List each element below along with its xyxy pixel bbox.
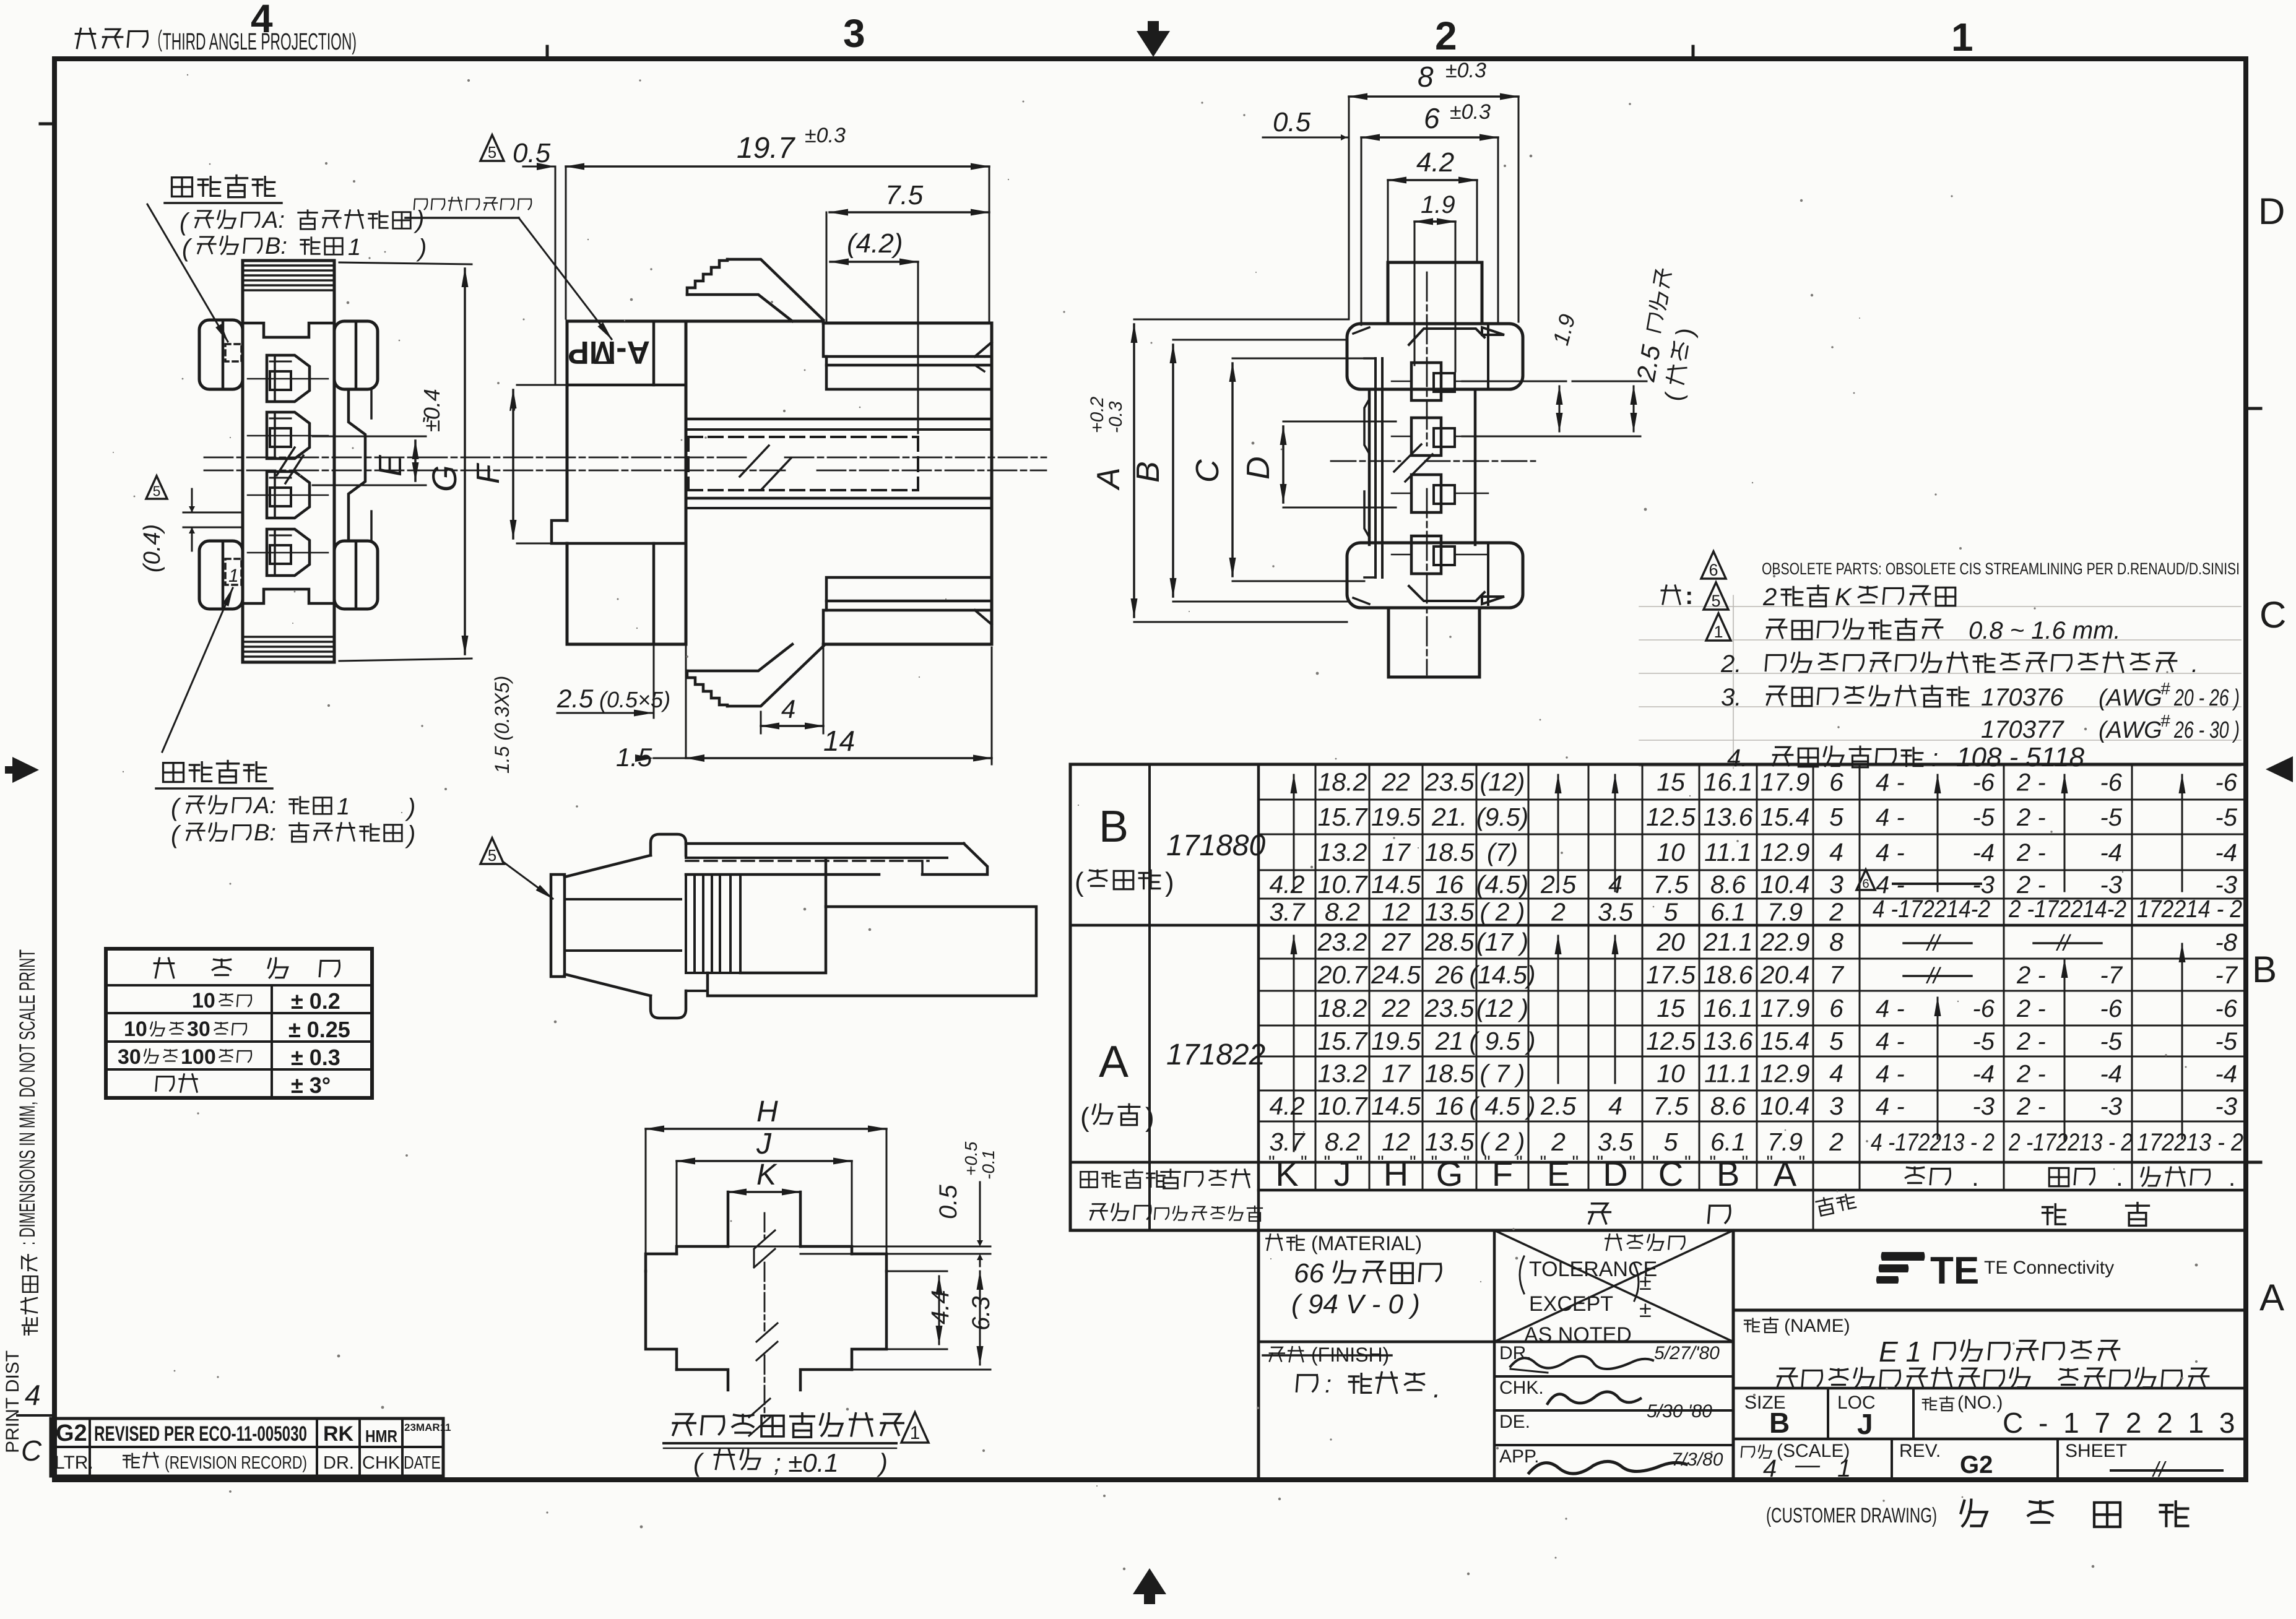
svg-text:1: 1 <box>348 235 361 261</box>
svg-text:(0.5×5): (0.5×5) <box>599 687 670 712</box>
svg-text:1: 1 <box>228 566 239 586</box>
cutout outline <box>728 1192 800 1246</box>
svg-text:6: 6 <box>1709 561 1718 579</box>
cable rails <box>686 842 964 845</box>
svg-text:( 2 ): ( 2 ) <box>1480 898 1525 926</box>
right view vertical centerline <box>1426 272 1428 446</box>
note triangle 1 <box>1706 613 1731 641</box>
right view top stem <box>1388 262 1482 324</box>
svg-text:REVISED PER ECO-11-005030: REVISED PER ECO-11-005030 <box>94 1422 307 1446</box>
svg-text:3: 3 <box>843 11 865 56</box>
svg-text:2 -: 2 - <box>2016 839 2046 866</box>
svg-text:4 -: 4 - <box>1876 839 1905 866</box>
cap right box <box>708 907 1036 996</box>
svg-text:; ±0.1: ; ±0.1 <box>774 1448 839 1477</box>
svg-text:D: D <box>1241 456 1276 480</box>
title block outline <box>1257 1230 1260 1480</box>
svg-text:2 -172214-2: 2 -172214-2 <box>2008 896 2126 923</box>
svg-text:2 -: 2 - <box>2016 871 2046 899</box>
flange inner lips <box>1409 329 1484 345</box>
DR signature <box>1510 1356 1653 1369</box>
svg-text:8: 8 <box>1418 61 1434 93</box>
svg-text:-3: -3 <box>2215 871 2237 899</box>
svg-text:-5: -5 <box>1972 1028 1995 1055</box>
svg-text:10.4: 10.4 <box>1761 1092 1810 1120</box>
svg-text:(9.5): (9.5) <box>1476 803 1528 831</box>
svg-text:DE.: DE. <box>1499 1412 1530 1432</box>
svg-text:(AWG: (AWG <box>2099 685 2162 711</box>
svg-text:": " <box>508 402 516 426</box>
svg-text:-6: -6 <box>1972 769 1995 797</box>
svg-text:± 0.25: ± 0.25 <box>288 1017 350 1042</box>
svg-text:(: ( <box>1075 867 1084 897</box>
svg-text:4 -: 4 - <box>1876 1061 1905 1088</box>
centerline break zigzag <box>740 446 769 477</box>
circuit number callout upper <box>172 178 193 197</box>
svg-text:7.5: 7.5 <box>1653 870 1689 899</box>
svg-text:10.7: 10.7 <box>1318 1092 1369 1120</box>
svg-text:-4: -4 <box>1972 1061 1995 1088</box>
svg-text:6: 6 <box>1829 994 1843 1022</box>
svg-text:26 - 30 ): 26 - 30 ) <box>2173 717 2240 743</box>
svg-text:2: 2 <box>1762 584 1777 611</box>
svg-text:": " <box>1540 1152 1547 1173</box>
svg-text:A:: A: <box>253 793 276 819</box>
svg-text:-4: -4 <box>2100 1061 2122 1088</box>
svg-text:5/27/'80: 5/27/'80 <box>1654 1343 1720 1363</box>
svg-text:.: . <box>1972 1162 1979 1191</box>
svg-text:(: ( <box>1080 1102 1090 1133</box>
svg-text:10: 10 <box>192 989 215 1012</box>
svg-text:4: 4 <box>25 1379 41 1411</box>
dim H <box>646 1128 886 1130</box>
svg-text:2: 2 <box>1551 1128 1566 1156</box>
cap mid block <box>740 860 826 973</box>
svg-text:2 -: 2 - <box>2016 769 2046 797</box>
svg-text:B: B <box>2252 949 2277 990</box>
svg-text:19.5: 19.5 <box>1371 1027 1421 1055</box>
svg-text:": " <box>1410 1152 1416 1173</box>
svg-text:1: 1 <box>1951 15 1973 59</box>
svg-text:HMR: HMR <box>365 1427 397 1446</box>
svg-text:17.9: 17.9 <box>1761 994 1810 1022</box>
svg-text:(12 ): (12 ) <box>1476 994 1528 1022</box>
svg-text:21.: 21. <box>1431 803 1467 831</box>
svg-text:4 -172214-2: 4 -172214-2 <box>1873 896 1990 923</box>
DE signature <box>1548 1392 1640 1404</box>
svg-text:4: 4 <box>1608 1092 1622 1120</box>
svg-text:5: 5 <box>488 847 496 865</box>
svg-text:2.5: 2.5 <box>1540 1092 1576 1120</box>
svg-text:AS NOTED: AS NOTED <box>1524 1323 1632 1347</box>
svg-text:12.5: 12.5 <box>1646 1027 1696 1055</box>
svg-text:-5: -5 <box>2100 804 2122 831</box>
svg-text:3.7: 3.7 <box>1270 1128 1306 1156</box>
svg-text:24.5: 24.5 <box>1371 961 1421 989</box>
svg-text:-5: -5 <box>2215 804 2237 831</box>
svg-text:16.1: 16.1 <box>1704 994 1753 1022</box>
svg-text:4.2: 4.2 <box>1270 1092 1305 1120</box>
svg-text:5: 5 <box>153 483 161 499</box>
svg-text:0.5: 0.5 <box>513 138 551 168</box>
svg-text:3: 3 <box>1829 1092 1843 1120</box>
svg-text:23.5: 23.5 <box>1424 994 1475 1022</box>
svg-text:1: 1 <box>910 1423 921 1443</box>
dim 1.9 pitch right <box>1462 381 1566 382</box>
dim 4.4 <box>938 1276 940 1344</box>
right view top flange <box>1347 324 1523 389</box>
socket bottom rail <box>823 610 989 644</box>
svg-text:H: H <box>1384 1154 1408 1193</box>
cavity wall lines <box>687 418 992 421</box>
svg-text:-6: -6 <box>1972 995 1995 1022</box>
svg-text:1.5 (0.3X5): 1.5 (0.3X5) <box>491 676 513 774</box>
svg-text:DR.: DR. <box>323 1453 354 1473</box>
svg-text:17: 17 <box>1382 838 1411 866</box>
svg-text:RK: RK <box>323 1422 354 1446</box>
svg-text:H: H <box>756 1095 778 1128</box>
dim J <box>677 1160 852 1162</box>
svg-text:K: K <box>1275 1154 1298 1193</box>
right view horizontal break <box>1331 460 1400 462</box>
dim (4.2) <box>830 261 918 263</box>
svg-text://: // <box>1925 930 1942 956</box>
dim B <box>1173 339 1347 341</box>
svg-text:-6: -6 <box>2100 769 2122 797</box>
note ruled lines (faint) <box>1639 606 2241 607</box>
left margin note <box>15 949 40 1335</box>
svg-text:-3: -3 <box>2215 1093 2237 1120</box>
circuit number pad bottom (dashed) <box>225 559 241 585</box>
svg-text:(0.4): (0.4) <box>139 524 165 572</box>
dim 4 (latch) <box>760 712 762 733</box>
svg-text::: : <box>1931 745 1938 772</box>
svg-text:DATE: DATE <box>404 1453 441 1473</box>
svg-text:7.9: 7.9 <box>1767 1128 1803 1156</box>
right view contact 2 <box>1411 418 1441 455</box>
dim 4.2 right view <box>1388 179 1477 181</box>
svg-text://: // <box>2055 930 2072 956</box>
svg-text:(14.5): (14.5) <box>1469 961 1535 989</box>
tolerance cell with X <box>1494 1230 1733 1342</box>
svg-text:B: B <box>1099 802 1129 852</box>
svg-text:B: B <box>1717 1154 1739 1193</box>
svg-text:E: E <box>373 454 409 477</box>
svg-text:10.7: 10.7 <box>1318 870 1369 899</box>
svg-text:2 -: 2 - <box>2016 962 2046 989</box>
svg-text:D: D <box>1603 1154 1627 1193</box>
right view body sides <box>1368 389 1371 545</box>
svg-text:G: G <box>1436 1154 1463 1193</box>
right view contact 4 <box>1411 536 1441 574</box>
socket top rail <box>823 323 989 356</box>
svg-text:6.1: 6.1 <box>1710 898 1746 926</box>
svg-text:#: # <box>2160 679 2170 698</box>
svg-text:4 -: 4 - <box>1876 1093 1905 1120</box>
svg-text:": " <box>1684 1152 1691 1173</box>
svg-text:3.5: 3.5 <box>1598 898 1633 926</box>
TE logo cell <box>1733 1309 2246 1312</box>
svg-text:4 -: 4 - <box>1876 769 1905 797</box>
svg-text:15: 15 <box>1657 768 1685 797</box>
svg-text:C - 1 7 2 2 1 3: C - 1 7 2 2 1 3 <box>2003 1407 2239 1439</box>
svg-text:( 2 ): ( 2 ) <box>1480 1128 1525 1156</box>
svg-text:C: C <box>21 1435 42 1467</box>
svg-text:20 - 26 ): 20 - 26 ) <box>2173 685 2240 711</box>
svg-text:13.6: 13.6 <box>1704 803 1753 831</box>
svg-text:: DIMENSIONS IN MM, DO NOT SCA: : DIMENSIONS IN MM, DO NOT SCALE PRINT <box>15 949 40 1245</box>
svg-text:-3: -3 <box>2100 871 2122 899</box>
horizontal centerline front view <box>204 457 418 459</box>
svg-text:19.5: 19.5 <box>1371 803 1421 831</box>
svg-text://: // <box>2152 1458 2167 1482</box>
svg-text:(NO.): (NO.) <box>1957 1392 2003 1413</box>
dim A <box>1134 319 1347 321</box>
zone ticks <box>546 46 549 59</box>
centering arrow right <box>2266 756 2293 782</box>
mounting ear bottom-right <box>334 541 378 609</box>
svg-text:13.6: 13.6 <box>1704 1027 1753 1055</box>
svg-text:-3: -3 <box>2100 1093 2122 1120</box>
svg-text:E: E <box>1547 1154 1570 1193</box>
svg-text:23.2: 23.2 <box>1317 928 1367 956</box>
svg-text:22: 22 <box>1381 994 1410 1022</box>
dim D <box>1283 421 1396 423</box>
svg-text:172213 - 2: 172213 - 2 <box>2137 1129 2243 1156</box>
svg-text:18.5: 18.5 <box>1425 1060 1475 1088</box>
right view contact 1 <box>1411 363 1441 400</box>
svg-text:A: A <box>1091 467 1127 491</box>
svg-text:SHEET: SHEET <box>2065 1441 2127 1461</box>
svg-text:13.2: 13.2 <box>1318 838 1367 866</box>
svg-text:1: 1 <box>1837 1455 1851 1482</box>
big table grid <box>1070 763 2246 766</box>
svg-text:5: 5 <box>1664 898 1678 926</box>
svg-text:172214 - 2: 172214 - 2 <box>2137 896 2242 923</box>
svg-text:15.7: 15.7 <box>1318 803 1369 831</box>
left small step <box>552 520 567 543</box>
svg-text:2 -: 2 - <box>2016 1061 2046 1088</box>
svg-text:5: 5 <box>1664 1128 1678 1156</box>
svg-text:B: B <box>1769 1407 1790 1439</box>
APP signature <box>1529 1461 1686 1474</box>
svg-text:5: 5 <box>488 144 496 162</box>
centerline break marks <box>277 447 295 475</box>
svg-text:C: C <box>1658 1154 1683 1193</box>
svg-text:(4.2): (4.2) <box>847 228 903 259</box>
TE logo <box>1876 1252 1925 1284</box>
mounting ear top-left <box>199 320 243 389</box>
svg-text:0.5: 0.5 <box>935 1185 962 1219</box>
svg-text://: // <box>1925 963 1942 988</box>
svg-text:12: 12 <box>1382 898 1410 926</box>
svg-text:23MAR11: 23MAR11 <box>404 1422 451 1433</box>
svg-text:26: 26 <box>1435 961 1464 989</box>
svg-text:F: F <box>1492 1154 1513 1193</box>
comb grip <box>685 874 687 973</box>
svg-text:A: A <box>2259 1277 2284 1318</box>
svg-text:23.5: 23.5 <box>1424 768 1475 797</box>
column arrows A section <box>1293 936 1295 1151</box>
svg-text:108 - 5118: 108 - 5118 <box>1956 742 2085 772</box>
svg-text:8.2: 8.2 <box>1325 1128 1360 1156</box>
svg-text:10: 10 <box>124 1017 147 1041</box>
svg-text:14: 14 <box>823 725 855 757</box>
svg-text:7.5: 7.5 <box>885 180 924 210</box>
svg-text:3.7: 3.7 <box>1270 898 1306 926</box>
svg-text:0.8 ~ 1.6 mm.: 0.8 ~ 1.6 mm. <box>1969 617 2121 644</box>
svg-text:1.9: 1.9 <box>1421 191 1455 218</box>
svg-text:66: 66 <box>1294 1258 1324 1289</box>
centering arrow bottom <box>1133 1568 1166 1604</box>
svg-text:-6: -6 <box>2215 769 2237 797</box>
svg-text:8: 8 <box>1829 928 1843 956</box>
svg-text:100: 100 <box>181 1045 216 1069</box>
svg-text:-5: -5 <box>2100 1028 2122 1055</box>
dim 14 bottom <box>686 757 992 759</box>
svg-text:-4: -4 <box>2215 839 2237 866</box>
svg-text:2 -: 2 - <box>2016 1028 2046 1055</box>
dim K <box>728 1191 800 1193</box>
dim 1.5 bottom <box>654 758 686 759</box>
lower latch stair <box>687 671 727 706</box>
svg-text:± 0.2: ± 0.2 <box>291 988 340 1014</box>
svg-text:16: 16 <box>1436 870 1464 899</box>
svg-text:-3: -3 <box>1972 1093 1995 1120</box>
third angle projection label <box>76 28 95 48</box>
svg-text:2: 2 <box>1829 1128 1843 1156</box>
svg-text:8.2: 8.2 <box>1325 898 1360 926</box>
svg-text:15.4: 15.4 <box>1761 803 1810 831</box>
svg-text:12: 12 <box>1382 1128 1410 1156</box>
svg-text:17: 17 <box>1382 1060 1411 1088</box>
svg-text:(REVISION RECORD): (REVISION RECORD) <box>165 1453 307 1473</box>
svg-text:-5: -5 <box>2215 1028 2237 1055</box>
svg-text:2 -: 2 - <box>2016 804 2046 831</box>
svg-text:TE: TE <box>1930 1250 1979 1292</box>
cap flange <box>551 874 565 977</box>
svg-text:OBSOLETE PARTS: OBSOLETE CI: OBSOLETE PARTS: OBSOLETE CIS STREAMLININ… <box>1762 559 2240 578</box>
svg-text:C: C <box>2259 594 2286 636</box>
front view head notch bottom <box>243 589 334 603</box>
svg-text:17.9: 17.9 <box>1761 768 1810 797</box>
svg-text:21.1: 21.1 <box>1703 928 1753 956</box>
dim 8 +-0.3 <box>1349 95 1518 98</box>
right view bottom stem <box>1388 608 1479 677</box>
svg-text:20.4: 20.4 <box>1760 961 1810 989</box>
svg-text:A-MP: A-MP <box>568 334 650 370</box>
general tolerance table <box>106 949 372 1098</box>
svg-text:11.1: 11.1 <box>1704 1060 1752 1088</box>
size/loc/no row <box>1827 1388 1829 1439</box>
cap bottom bump <box>651 991 686 1018</box>
centering arrow left <box>5 757 39 783</box>
svg-text:6.3: 6.3 <box>968 1296 995 1331</box>
cap top bump <box>651 834 686 855</box>
svg-text:(7): (7) <box>1487 838 1518 866</box>
contact cavity 1 <box>267 355 310 402</box>
svg-text:171822: 171822 <box>1166 1038 1265 1071</box>
svg-text:4 -: 4 - <box>1876 995 1905 1022</box>
svg-text:4 -: 4 - <box>1876 804 1905 831</box>
finish cell <box>1270 1347 1284 1361</box>
svg-text:A: A <box>1774 1154 1797 1193</box>
centering arrow top <box>1137 21 1170 57</box>
svg-text:5: 5 <box>1711 592 1720 610</box>
mounting ear top-right <box>334 321 378 389</box>
svg-text:±: ± <box>1639 1269 1652 1295</box>
svg-text:15.4: 15.4 <box>1761 1027 1810 1055</box>
AMP mirrored logo <box>568 334 650 370</box>
svg-text:10: 10 <box>1657 838 1685 866</box>
note: label <box>1661 585 1680 604</box>
svg-text:(CUSTOMER DRAWING): (CUSTOMER DRAWING) <box>1766 1504 1937 1527</box>
svg-text:15: 15 <box>1657 994 1685 1022</box>
scale/rev/sheet row <box>1891 1439 1893 1480</box>
svg-text:K: K <box>1835 584 1853 611</box>
extension lines 0.5/19.7 <box>555 166 557 384</box>
svg-text:#: # <box>2160 711 2170 730</box>
dim 7.5 <box>830 211 989 214</box>
svg-text:1: 1 <box>1713 623 1723 641</box>
svg-text:11.1: 11.1 <box>1704 838 1752 866</box>
side view body <box>567 320 823 323</box>
footer labels <box>1081 1172 1098 1187</box>
leader to bottom pad <box>162 588 233 752</box>
svg-text:G: G <box>425 465 464 492</box>
svg-text:3.5: 3.5 <box>1598 1128 1633 1156</box>
svg-text:1.5: 1.5 <box>616 743 652 772</box>
svg-text:-7: -7 <box>2100 962 2123 989</box>
svg-text:22: 22 <box>1381 768 1410 797</box>
svg-text:10.4: 10.4 <box>1761 870 1810 899</box>
svg-text:): ) <box>1145 1102 1154 1133</box>
dimension F <box>517 384 565 386</box>
svg-text:±: ± <box>1639 1297 1652 1322</box>
svg-text:±0.4: ±0.4 <box>419 389 444 432</box>
svg-text:6: 6 <box>1862 877 1869 891</box>
scan speckles <box>771 301 773 303</box>
svg-text:J: J <box>756 1128 772 1160</box>
svg-text:8.6: 8.6 <box>1710 1092 1746 1120</box>
svg-text:2 -172213 - 2: 2 -172213 - 2 <box>2008 1129 2133 1156</box>
(0.4) offset lines <box>183 512 243 514</box>
panel surface lines <box>728 1246 990 1248</box>
svg-text:30: 30 <box>187 1017 210 1041</box>
front view head notch top <box>243 323 334 337</box>
dimension E <box>313 436 426 438</box>
svg-text:LTR.: LTR. <box>54 1453 93 1473</box>
svg-text:B: B <box>1130 461 1166 483</box>
contact cavity 3 <box>267 472 310 518</box>
svg-text:18.6: 18.6 <box>1704 961 1753 989</box>
dim 6.3 <box>979 1271 981 1365</box>
dim 6 +-0.3 <box>1361 136 1498 139</box>
svg-text:B:: B: <box>265 233 287 259</box>
svg-text:171880: 171880 <box>1166 829 1265 862</box>
svg-text:K: K <box>756 1159 778 1191</box>
svg-text:EXCEPT: EXCEPT <box>1529 1292 1613 1316</box>
svg-text:PRINT DIST: PRINT DIST <box>2 1350 23 1453</box>
svg-text:+0.5: +0.5 <box>961 1141 981 1176</box>
svg-text:19.7: 19.7 <box>737 132 796 165</box>
svg-text:15.7: 15.7 <box>1318 1027 1369 1055</box>
svg-text::: : <box>1685 582 1693 610</box>
circuit number pad top (dashed) <box>225 344 241 361</box>
svg-text:": " <box>1652 1152 1659 1173</box>
svg-text:( 9.5 ): ( 9.5 ) <box>1469 1027 1535 1055</box>
AMP box <box>567 384 686 387</box>
